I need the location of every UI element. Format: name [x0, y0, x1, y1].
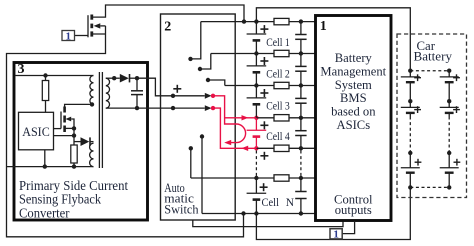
svg-text:Converter: Converter — [19, 205, 70, 220]
svg-text:outputs: outputs — [335, 203, 372, 217]
svg-text:Cell 2: Cell 2 — [266, 69, 290, 81]
svg-text:Cell 1: Cell 1 — [266, 37, 290, 49]
svg-text:N: N — [286, 197, 295, 209]
svg-text:ASICs: ASICs — [337, 118, 371, 132]
svg-text:Battery: Battery — [335, 51, 373, 65]
svg-text:Cell: Cell — [262, 197, 280, 209]
svg-text:Primary Side Current: Primary Side Current — [19, 178, 128, 193]
svg-text:Switch: Switch — [164, 202, 199, 217]
svg-text:BMS: BMS — [340, 91, 367, 105]
svg-text:1: 1 — [66, 30, 72, 42]
svg-text:System: System — [335, 78, 372, 92]
svg-text:Cell 4: Cell 4 — [266, 131, 290, 143]
svg-text:Management: Management — [320, 64, 386, 78]
svg-text:2: 2 — [164, 20, 171, 35]
svg-text:Battery: Battery — [414, 49, 453, 63]
svg-text:based on: based on — [331, 105, 376, 119]
svg-text:ASIC: ASIC — [22, 125, 50, 139]
svg-text:Cell 3: Cell 3 — [266, 101, 290, 113]
svg-text:1: 1 — [333, 229, 339, 241]
svg-text:1: 1 — [320, 19, 327, 34]
